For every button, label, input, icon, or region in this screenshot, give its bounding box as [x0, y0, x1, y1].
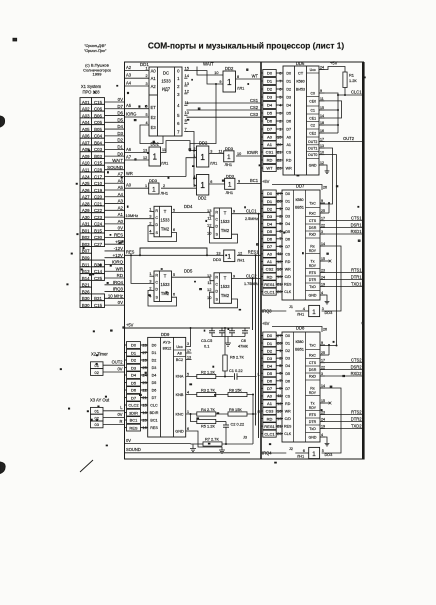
svg-text:14: 14: [320, 114, 324, 118]
node D0 cell into DD7 pin 27: [261, 190, 283, 197]
svg-text:WR: WR: [285, 410, 291, 414]
svg-text:AY3-: AY3-: [163, 340, 172, 345]
svg-text:Tx: Tx: [311, 402, 315, 406]
svg-text:D5: D5: [267, 371, 273, 376]
scan artifact: left edge blob upper: [0, 116, 5, 127]
node D7 cell into DD8 pin 8: [261, 385, 283, 392]
svg-text:J1: J1: [289, 305, 293, 309]
wire A0 into DD3.1 pin 1: [125, 187, 149, 189]
svg-text:RDY: RDY: [309, 391, 317, 395]
svg-text:CS: CS: [286, 151, 292, 155]
svg-text:1: 1: [227, 154, 231, 161]
svg-text:ЛН1: ЛН1: [226, 190, 234, 195]
wire A4 into DD1 pin 3: [125, 85, 150, 87]
node A1 cell into DD6 pin 20: [261, 141, 283, 148]
svg-text:GND: GND: [309, 436, 317, 440]
svg-text:0V: 0V: [126, 438, 131, 443]
svg-text:D2: D2: [117, 138, 123, 143]
svg-text:0V: 0V: [117, 366, 122, 371]
wire DD1 out7 down to gate column: [187, 132, 195, 186]
chip DD7 left pin names: [284, 192, 292, 294]
svg-text:DD3: DD3: [325, 452, 333, 457]
svg-text:D2: D2: [131, 358, 137, 363]
svg-text:A1: A1: [151, 76, 157, 81]
svg-text:DD3: DD3: [225, 146, 234, 151]
wire DD5.1 Q out to DD5.2 clock: [172, 277, 215, 281]
svg-text:RxD: RxD: [309, 375, 316, 379]
svg-text:D0: D0: [131, 343, 137, 348]
gate DD2.3 OR body: [197, 146, 209, 167]
connector X1 pin row B13 / net WR: [80, 266, 125, 274]
chip DD1 output pin numbers: [184, 66, 190, 132]
svg-text:DTR: DTR: [309, 278, 317, 282]
svg-text:D2: D2: [152, 359, 157, 363]
connector X1 pin row B26 / net IRQ3: [80, 287, 125, 295]
node D3 cell into DD6 pin 5: [261, 94, 283, 101]
svg-text:26: 26: [323, 186, 327, 190]
svg-text:S: S: [156, 296, 159, 300]
svg-text:4: 4: [321, 433, 323, 437]
svg-text:DTR1: DTR1: [351, 274, 362, 279]
svg-text:RXD2: RXD2: [351, 371, 363, 376]
svg-text:5: 5: [173, 273, 175, 277]
svg-text:GND: GND: [175, 430, 184, 434]
svg-text:D7: D7: [267, 244, 273, 249]
svg-text:IRQ3: IRQ3: [113, 287, 124, 292]
node CS2 cell into DD7 pin 16: [261, 266, 283, 273]
svg-text:R6 2.7К: R6 2.7К: [230, 355, 244, 360]
node D5 cell into DD7 pin 6: [261, 228, 283, 235]
wire RTS1 exit right: [325, 272, 363, 274]
svg-text:14: 14: [321, 242, 325, 246]
svg-text:A2: A2: [126, 65, 132, 70]
svg-text:D7: D7: [285, 387, 290, 391]
svg-text:+5V: +5V: [262, 179, 270, 184]
svg-text:D3: D3: [267, 95, 273, 100]
svg-text:CE0: CE0: [309, 99, 316, 103]
junction dots RES net: [139, 254, 141, 256]
svg-text:A4: A4: [118, 192, 124, 197]
svg-text:SOUND: SOUND: [126, 447, 141, 452]
svg-text:IOWR: IOWR: [247, 150, 258, 155]
svg-text:6: 6: [173, 228, 175, 232]
svg-text:J3: J3: [243, 436, 247, 440]
node CLC1 cell into DD8 pin 20: [261, 430, 283, 437]
scan noise speckles: [60, 69, 365, 463]
node D0 cell into DD9 pin 28: [125, 342, 148, 349]
node D2 cell into DD7 pin 1: [261, 205, 283, 212]
svg-text:1533: 1533: [161, 78, 171, 83]
svg-text:DD9: DD9: [161, 332, 170, 337]
svg-text:1.2К: 1.2К: [349, 78, 357, 83]
wire KNC output pin 1: [186, 413, 257, 415]
wire R1 to CLC1 node: [344, 88, 346, 96]
svg-text:DD5: DD5: [184, 269, 193, 274]
svg-text:J2: J2: [289, 447, 293, 451]
svg-text:D3: D3: [286, 96, 291, 100]
svg-text:D1: D1: [267, 199, 273, 204]
svg-text:KNC: KNC: [175, 413, 183, 417]
wire DD6 GND pin 12: [325, 165, 328, 169]
svg-text:SOUND: SOUND: [107, 165, 123, 170]
node D6 cell into DD7 pin 7: [261, 235, 283, 242]
svg-text:COM-порты и музыкальный процес: COM-порты и музыкальный процессор (лист …: [148, 41, 345, 51]
wire CLC2 output of DD5.2: [232, 278, 262, 280]
jumper J1: [286, 310, 289, 313]
svg-text:12: 12: [207, 222, 212, 227]
svg-text:CE1: CE1: [309, 117, 316, 121]
resistor R6 pull-up: [224, 328, 226, 355]
resistor R1: [343, 72, 347, 88]
svg-text:9: 9: [320, 89, 322, 93]
svg-text:RxC: RxC: [309, 354, 316, 358]
svg-text:RD: RD: [285, 260, 291, 264]
svg-text:A0: A0: [267, 252, 273, 257]
node RES cell into DD9 pin 16: [125, 424, 148, 431]
svg-text:"Орион-Про": "Орион-Про": [84, 49, 107, 53]
svg-text:3: 3: [321, 230, 323, 234]
capacitor C6 electrolytic: [238, 328, 249, 349]
connector X1 pin row B03 / net +5V: [80, 239, 125, 247]
svg-text:9: 9: [321, 341, 323, 345]
wire DD2.4 out pin 6 to DD3.3: [209, 183, 225, 185]
svg-text:GND: GND: [309, 294, 317, 298]
svg-text:D2: D2: [285, 207, 290, 211]
svg-text:D0: D0: [286, 72, 291, 76]
node D3 cell into DD7 pin 2: [261, 213, 283, 220]
svg-text:ТМ2: ТМ2: [221, 293, 230, 298]
svg-text:C: C: [215, 218, 218, 222]
svg-text:RxD: RxD: [309, 233, 316, 237]
flip-flop DD5.2 body: [214, 273, 232, 304]
wire vertical RES1 rail near divider: [255, 255, 257, 425]
svg-text:1: 1: [228, 182, 232, 189]
svg-text:D0: D0: [267, 191, 273, 196]
wire DD2.4 pin4 from out7 column: [194, 178, 197, 180]
svg-text:C27: C27: [94, 242, 103, 247]
svg-text:BDIR: BDIR: [150, 411, 159, 415]
svg-text:ЛН1: ЛН1: [237, 258, 245, 263]
svg-text:0.1: 0.1: [204, 344, 209, 349]
svg-text:D4: D4: [285, 222, 290, 226]
svg-text:RD: RD: [117, 273, 123, 278]
svg-text:25: 25: [321, 351, 325, 355]
svg-text:0V: 0V: [118, 300, 123, 305]
wire DD4.1 R pin stub: [150, 211, 155, 213]
svg-text:R: R: [155, 274, 158, 278]
wire DSR2 exit right: [325, 369, 363, 371]
svg-text:WR: WR: [116, 266, 123, 271]
svg-text:3: 3: [149, 214, 152, 219]
wire DTR2 exit right: [325, 421, 363, 423]
svg-text:К580: К580: [295, 340, 303, 344]
svg-text:CLC1: CLC1: [264, 289, 275, 294]
svg-text:9: 9: [321, 199, 323, 203]
svg-text:D2: D2: [267, 87, 273, 92]
svg-text:TxC: TxC: [309, 344, 316, 348]
svg-text:D6: D6: [267, 237, 273, 242]
svg-text:1533: 1533: [160, 218, 170, 223]
node D2 cell into DD9 pin 26: [125, 357, 148, 364]
scan artifact: left edge blob lower: [0, 462, 5, 474]
svg-text:RES: RES: [129, 425, 138, 430]
svg-text:4: 4: [321, 291, 323, 295]
svg-text:9: 9: [219, 80, 221, 84]
node D0 cell into DD8 pin 27: [261, 332, 283, 339]
wire A2 into DD1 pin 1: [125, 70, 150, 72]
svg-text:К580: К580: [296, 80, 304, 84]
svg-text:CS: CS: [285, 394, 291, 398]
svg-text:CLK: CLK: [284, 290, 292, 294]
node A1 cell into DD8 pin 12: [261, 400, 283, 407]
svg-text:TxD: TxD: [309, 427, 316, 431]
resistor R4: [197, 412, 216, 416]
svg-text:R8 15К: R8 15К: [229, 387, 242, 392]
svg-text:RTS: RTS: [309, 413, 317, 417]
svg-text:ЛН1: ЛН1: [297, 455, 304, 459]
wire CE0 CE1 tie: [325, 101, 342, 118]
svg-text:BC2: BC2: [176, 358, 183, 362]
svg-text:T: T: [224, 211, 227, 216]
svg-text:A5: A5: [126, 103, 132, 108]
chip DD8 left pin names: [284, 334, 292, 436]
svg-text:RD: RD: [267, 158, 273, 163]
wire DD7 GND pin 4: [325, 295, 327, 299]
wire SOUND line: [125, 452, 251, 454]
connector X1 pin row B14 / net RD: [80, 273, 125, 281]
svg-text:3: 3: [187, 342, 189, 346]
svg-text:ЛЛ1: ЛЛ1: [161, 161, 168, 166]
wire WAIT to gate DD2.1 pin 10: [197, 67, 223, 76]
svg-text:D6: D6: [285, 379, 290, 383]
node D1 cell into DD9 pin 27: [125, 349, 148, 356]
svg-text:19: 19: [321, 283, 325, 287]
wire E3 pin 4 loop from below: [140, 125, 163, 144]
svg-text:D1: D1: [267, 79, 273, 84]
svg-text:D3: D3: [267, 356, 273, 361]
wire KNA to L out: [237, 376, 257, 378]
svg-text:24: 24: [321, 418, 325, 422]
svg-text:IORQ: IORQ: [112, 260, 124, 265]
svg-text:KNB: KNB: [176, 393, 184, 397]
svg-text:D4: D4: [267, 363, 273, 368]
node RD cell into DD7 pin 13: [261, 273, 283, 280]
capacitor C2: [225, 422, 227, 426]
svg-text:13: 13: [320, 144, 324, 148]
svg-text:E3: E3: [151, 125, 157, 130]
svg-text:C/D: C/D: [285, 417, 292, 421]
svg-text:BC1: BC1: [130, 418, 139, 423]
svg-text:D0: D0: [117, 151, 123, 156]
svg-text:3: 3: [321, 372, 323, 376]
svg-text:2: 2: [146, 74, 148, 78]
node A0 cell into DD7 pin 11: [261, 250, 283, 257]
capacitor C1 coupling: [234, 373, 236, 380]
svg-text:3: 3: [149, 278, 152, 283]
svg-text:CLC: CLC: [150, 404, 158, 408]
flip-flop DD4.1 body: [154, 206, 172, 237]
svg-text:CLC1: CLC1: [351, 90, 362, 95]
node D7 cell into DD6 pin 1: [261, 126, 283, 133]
wire DD9 GND pin 6: [186, 431, 222, 447]
svg-text:4: 4: [187, 390, 189, 394]
svg-text:RD: RD: [267, 274, 273, 279]
wire RXD1 exit right: [325, 233, 363, 235]
svg-text:CLC1: CLC1: [246, 209, 257, 214]
gate DD2.2 OR body (A6 A7): [149, 147, 161, 166]
svg-text:18: 18: [320, 121, 324, 125]
svg-text:RD: RD: [267, 416, 273, 421]
svg-text:D7: D7: [131, 395, 137, 400]
chip DD9 right column cells: [174, 345, 186, 434]
svg-text:D: D: [215, 289, 218, 293]
svg-text:1: 1: [227, 254, 231, 261]
svg-text:D7: D7: [286, 128, 291, 132]
svg-text:ЛЛ1: ЛЛ1: [210, 161, 217, 166]
svg-text:RES: RES: [126, 250, 135, 255]
wire OUT2 to X2: [103, 364, 125, 366]
svg-text:03: 03: [95, 422, 99, 427]
node D3 cell into DD8 pin 2: [261, 355, 283, 362]
wire DD7 RxC tie: [328, 203, 330, 213]
svg-text:+5V: +5V: [126, 322, 134, 327]
svg-text:CS: CS: [285, 252, 291, 256]
svg-text:2: 2: [149, 221, 152, 226]
node WT cell into DD6 pin 23: [261, 165, 283, 172]
node CS3 cell into DD8 pin 16: [261, 408, 283, 415]
svg-text:ЛН1: ЛН1: [225, 162, 233, 167]
svg-text:CS2: CS2: [250, 105, 259, 110]
svg-text:4: 4: [146, 121, 148, 125]
svg-text:1: 1: [187, 410, 189, 414]
svg-text:T: T: [164, 274, 167, 279]
inverter DD3 (IRQ3) body: [309, 305, 320, 316]
svg-text:1: 1: [146, 67, 148, 71]
svg-text:RD: RD: [285, 402, 291, 406]
wire clock column to CE2: [325, 132, 339, 134]
svg-text:D2: D2: [285, 349, 290, 353]
connector X1 pin row A11 / net SOUND: [80, 165, 125, 173]
wire TXD1 exit right: [325, 286, 363, 288]
svg-text:DD2: DD2: [198, 196, 207, 201]
chip DD7 right pin numbers: [320, 199, 325, 295]
svg-text:0V: 0V: [118, 226, 123, 231]
flip-flop DD5.2 pin numbers: [207, 273, 212, 300]
svg-text:1: 1: [200, 180, 205, 190]
svg-text:4: 4: [149, 229, 152, 234]
wire DD8 RxC tie: [328, 345, 330, 355]
svg-text:DD4: DD4: [184, 204, 193, 209]
svg-text:D2: D2: [267, 348, 273, 353]
svg-text:D7: D7: [267, 386, 273, 391]
schematic frame right thick border: [362, 62, 365, 460]
wire DD8 RxRDY to jumper J2: [322, 388, 341, 453]
wire RXD2 exit right: [325, 375, 363, 377]
wire RES branch up to DD4 S/R: [140, 248, 207, 255]
svg-text:"Орион-Д/В": "Орион-Д/В": [84, 44, 106, 48]
svg-text:D2: D2: [286, 88, 291, 92]
svg-text:+5V: +5V: [330, 61, 338, 66]
svg-text:D5: D5: [152, 381, 157, 385]
connector X1 pin row A05 / net D4: [80, 124, 125, 132]
svg-text:D3: D3: [267, 214, 273, 219]
svg-text:WR: WR: [286, 167, 292, 171]
svg-text:RES: RES: [114, 233, 123, 238]
junction dots on out7 column: [193, 150, 195, 152]
svg-text:13: 13: [216, 251, 220, 255]
wire TXD2 exit right: [325, 428, 363, 430]
ground symbol caps: [225, 340, 231, 346]
node CS1 cell into DD6 pin 21: [261, 149, 283, 156]
svg-text:D1: D1: [152, 351, 157, 355]
wire DD3.1 output pin 2 to DD2.4: [161, 187, 197, 189]
svg-text:17: 17: [187, 349, 191, 353]
svg-text:D1: D1: [285, 342, 290, 346]
svg-text:1: 1: [312, 309, 316, 316]
svg-text:D4: D4: [267, 221, 273, 226]
svg-text:CTS: CTS: [309, 219, 317, 223]
DD1 output inversion bubbles: [182, 70, 184, 72]
svg-text:DC: DC: [163, 70, 169, 75]
svg-text:S: S: [216, 297, 219, 301]
svg-text:D: D: [155, 288, 158, 292]
svg-text:WR: WR: [285, 268, 291, 272]
svg-text:3: 3: [210, 150, 212, 154]
svg-text:D5: D5: [285, 230, 290, 234]
wire RES1 output: [237, 254, 261, 256]
svg-text:DD3: DD3: [213, 257, 222, 262]
node D6 cell into DD8 pin 7: [261, 377, 283, 384]
svg-text:15: 15: [320, 106, 324, 110]
svg-text:Ucc: Ucc: [310, 68, 316, 72]
svg-text:D1: D1: [131, 350, 137, 355]
node D5 cell into DD6 pin 3: [261, 110, 283, 117]
chip DD6 body: [283, 66, 319, 175]
svg-text:D6: D6: [131, 388, 137, 393]
resistor R3: [197, 392, 216, 396]
svg-text:L: L: [120, 405, 123, 410]
connector X3 AY Out: [90, 398, 110, 428]
wire DD8 TxRDY stub: [325, 402, 330, 404]
svg-text:X3 AY Out: X3 AY Out: [90, 398, 110, 403]
svg-text:OUT1: OUT1: [308, 147, 317, 151]
connector X1 pin row B30 / net 10 MHz: [80, 293, 125, 301]
flip-flop DD4.2 pin numbers: [207, 208, 212, 235]
svg-text:S: S: [216, 233, 219, 237]
svg-text:D3: D3: [131, 365, 137, 370]
node D0 cell into DD6 pin 8: [261, 70, 283, 77]
wire DD1 out0 to gate DD2.1 pin 9: [187, 71, 224, 84]
chip DD9 AY-3-8912 body: [148, 337, 186, 437]
svg-text:D1: D1: [117, 144, 123, 149]
wire DD2.3 out pin 3 to DD3.2: [209, 153, 224, 155]
svg-text:C3-C5: C3-C5: [201, 338, 212, 343]
svg-text:2: 2: [163, 184, 165, 188]
svg-text:12: 12: [185, 89, 190, 94]
svg-text:10: 10: [237, 152, 241, 156]
svg-text:8: 8: [237, 75, 239, 79]
svg-text:02: 02: [95, 370, 99, 375]
svg-text:3DIR: 3DIR: [129, 410, 138, 415]
svg-text:D0: D0: [152, 344, 157, 348]
svg-text:13: 13: [207, 208, 212, 213]
wire CLC1 to C0 pin: [325, 93, 346, 95]
svg-text:D4: D4: [152, 374, 157, 378]
svg-text:1533: 1533: [220, 284, 230, 289]
svg-text:CS1: CS1: [266, 150, 275, 155]
svg-text:A1: A1: [286, 143, 291, 147]
capacitor C3-C5 group: [201, 327, 235, 348]
